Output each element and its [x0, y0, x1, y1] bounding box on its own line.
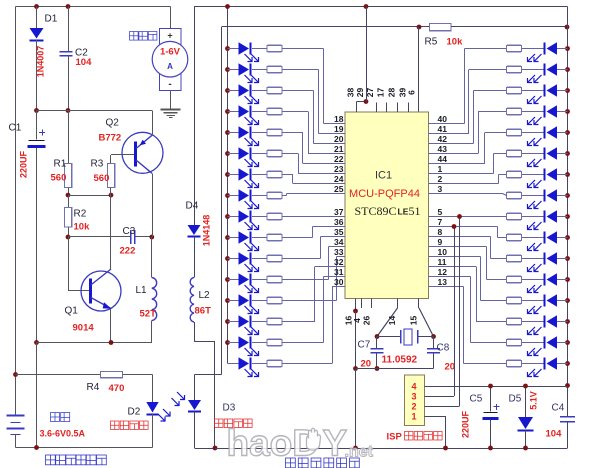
svg-text:D4: D4: [186, 201, 199, 212]
svg-text:C5: C5: [470, 394, 483, 405]
svg-text:MCU-PQFP44: MCU-PQFP44: [349, 188, 420, 200]
svg-text:1: 1: [438, 164, 443, 174]
svg-text:22: 22: [334, 154, 344, 164]
svg-text:29: 29: [355, 88, 365, 98]
svg-text:104: 104: [546, 429, 563, 440]
svg-text:222: 222: [120, 246, 136, 257]
svg-text:C3: C3: [123, 226, 136, 237]
svg-text:7: 7: [438, 217, 443, 227]
svg-text:6: 6: [407, 90, 417, 95]
svg-text:9014: 9014: [73, 323, 95, 334]
svg-text:D2: D2: [128, 407, 141, 418]
svg-text:36: 36: [334, 217, 344, 227]
svg-text:27: 27: [365, 88, 375, 98]
svg-text:-: -: [168, 79, 171, 90]
svg-text:8: 8: [438, 227, 443, 237]
svg-text:L2: L2: [199, 290, 211, 301]
svg-text:R5: R5: [425, 37, 438, 48]
svg-text:B772: B772: [99, 133, 122, 144]
svg-text:37: 37: [334, 207, 344, 217]
svg-text:haoD: haoD: [227, 423, 320, 464]
svg-text:34: 34: [334, 237, 344, 247]
svg-text:IC1: IC1: [375, 170, 392, 182]
svg-text:4: 4: [411, 382, 416, 392]
svg-text:32: 32: [334, 257, 344, 267]
svg-text:31: 31: [334, 267, 344, 277]
svg-text:D5: D5: [509, 394, 522, 405]
svg-text:1N4007: 1N4007: [36, 46, 46, 78]
svg-text:1-6V: 1-6V: [160, 47, 181, 58]
svg-text:43: 43: [438, 144, 448, 154]
svg-text:3: 3: [438, 184, 443, 194]
svg-text:41: 41: [438, 124, 448, 134]
svg-text:2: 2: [438, 174, 443, 184]
svg-text:3: 3: [411, 392, 416, 402]
svg-text:R4: R4: [87, 382, 100, 393]
svg-text:D3: D3: [223, 403, 236, 414]
svg-text:L1: L1: [136, 285, 148, 296]
svg-text:3.6-6V0.5A: 3.6-6V0.5A: [40, 429, 86, 439]
svg-text:18: 18: [334, 114, 344, 124]
svg-text:38: 38: [346, 88, 356, 98]
svg-text:R3: R3: [91, 159, 104, 170]
svg-text:220UF: 220UF: [461, 410, 471, 438]
svg-text:C8: C8: [437, 343, 450, 354]
svg-text:C1: C1: [9, 123, 22, 134]
svg-text:21: 21: [334, 144, 344, 154]
svg-text:17: 17: [376, 88, 386, 98]
svg-text:23: 23: [334, 164, 344, 174]
svg-text:11: 11: [438, 257, 447, 267]
svg-text:A: A: [167, 62, 173, 71]
svg-text:20: 20: [445, 362, 456, 373]
svg-text:+: +: [167, 31, 172, 41]
svg-text:R2: R2: [74, 209, 87, 220]
svg-text:10: 10: [438, 247, 448, 257]
svg-text:11.0592: 11.0592: [382, 355, 418, 366]
svg-text:4: 4: [352, 318, 362, 323]
svg-text:25: 25: [334, 184, 344, 194]
svg-text:51: 51: [409, 204, 421, 218]
svg-text:28: 28: [387, 88, 397, 98]
svg-text:Q2: Q2: [106, 118, 120, 129]
svg-text:12: 12: [438, 267, 448, 277]
svg-text:30: 30: [334, 277, 344, 287]
svg-text:10k: 10k: [74, 222, 91, 233]
svg-text:15: 15: [409, 316, 419, 326]
svg-text:STC89C: STC89C: [355, 204, 397, 218]
svg-text:1N4148: 1N4148: [202, 215, 212, 247]
svg-text:20: 20: [334, 134, 344, 144]
svg-text:9: 9: [438, 237, 443, 247]
svg-text:470: 470: [109, 383, 125, 394]
svg-text:D1: D1: [45, 14, 58, 25]
svg-text:.net: .net: [345, 444, 374, 461]
svg-text:ISP: ISP: [387, 432, 403, 443]
svg-text:C4: C4: [552, 403, 565, 414]
svg-text:LE: LE: [398, 207, 409, 217]
svg-text:86T: 86T: [195, 306, 212, 317]
svg-text:40: 40: [438, 114, 448, 124]
svg-text:C7: C7: [358, 340, 371, 351]
svg-text:560: 560: [94, 173, 110, 184]
svg-text:2: 2: [411, 402, 416, 412]
svg-text:14: 14: [387, 316, 397, 326]
svg-text:35: 35: [334, 227, 344, 237]
svg-text:R1: R1: [54, 159, 67, 170]
svg-text:33: 33: [334, 247, 344, 257]
svg-text:104: 104: [76, 57, 93, 68]
svg-text:Q1: Q1: [65, 306, 79, 317]
svg-text:13: 13: [438, 277, 448, 287]
svg-text:19: 19: [334, 124, 344, 134]
svg-text:10k: 10k: [447, 37, 464, 48]
svg-text:52T: 52T: [140, 309, 157, 320]
svg-text:44: 44: [438, 154, 448, 164]
svg-text:42: 42: [438, 134, 448, 144]
svg-text:5.1V: 5.1V: [529, 391, 539, 410]
svg-text:26: 26: [362, 316, 372, 326]
svg-text:24: 24: [334, 174, 344, 184]
svg-text:5: 5: [438, 207, 443, 217]
svg-text:20: 20: [361, 359, 372, 370]
svg-text:1: 1: [411, 412, 416, 422]
svg-text:560: 560: [51, 173, 67, 184]
svg-text:220UF: 220UF: [19, 150, 29, 178]
